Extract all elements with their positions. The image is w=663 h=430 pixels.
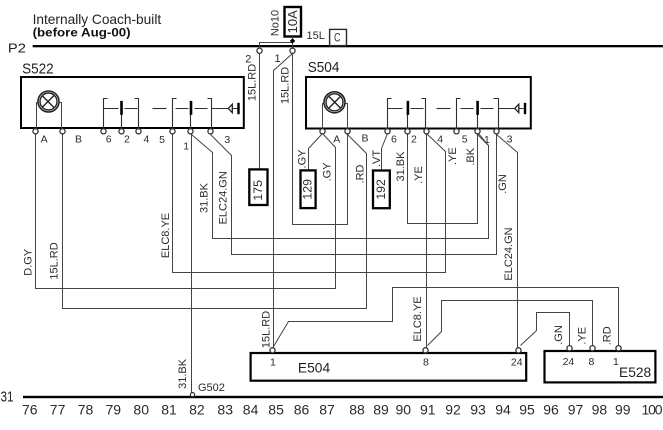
svg-text:15L.RD: 15L.RD	[260, 311, 272, 348]
svg-text:31.BK: 31.BK	[199, 182, 211, 213]
svg-text:77: 77	[50, 402, 66, 418]
svg-text:.BK: .BK	[465, 147, 477, 165]
svg-text:6: 6	[391, 133, 397, 145]
svg-text:E528: E528	[619, 365, 652, 380]
svg-text:3: 3	[224, 134, 230, 146]
svg-text:B: B	[75, 133, 82, 145]
svg-text:2: 2	[411, 133, 417, 145]
svg-text:2: 2	[124, 133, 130, 145]
svg-text:8: 8	[589, 356, 595, 368]
svg-text:1: 1	[275, 53, 281, 65]
svg-text:S522: S522	[22, 61, 53, 77]
svg-text:84: 84	[243, 402, 259, 418]
svg-text:2: 2	[245, 54, 251, 66]
svg-text:24: 24	[563, 356, 575, 368]
svg-text:91: 91	[420, 402, 436, 418]
svg-text:A: A	[41, 133, 48, 145]
svg-text:90: 90	[396, 402, 412, 418]
svg-text:31.BK: 31.BK	[395, 151, 407, 182]
svg-text:.GN: .GN	[553, 325, 565, 345]
svg-text:.GN: .GN	[497, 174, 509, 194]
svg-text:98: 98	[592, 402, 608, 418]
svg-text:6: 6	[106, 133, 112, 145]
svg-text:1: 1	[484, 134, 490, 146]
svg-text:86: 86	[294, 402, 310, 418]
svg-text:G502: G502	[198, 382, 225, 394]
svg-text:92: 92	[445, 402, 461, 418]
svg-text:(before Aug-00): (before Aug-00)	[33, 25, 131, 39]
svg-text:3: 3	[507, 133, 513, 145]
svg-text:100: 100	[642, 402, 663, 418]
svg-text:D.GY: D.GY	[23, 248, 35, 276]
svg-text:.VT: .VT	[371, 150, 383, 167]
svg-text:.GY: .GY	[297, 149, 309, 169]
svg-text:5: 5	[159, 134, 165, 146]
svg-text:15L.RD: 15L.RD	[48, 242, 60, 279]
svg-text:4: 4	[437, 133, 443, 145]
svg-text:97: 97	[568, 402, 584, 418]
svg-text:31: 31	[1, 389, 14, 405]
svg-text:175: 175	[251, 180, 265, 201]
svg-text:.YE: .YE	[413, 166, 425, 184]
svg-text:.RD: .RD	[602, 326, 614, 345]
svg-text:ELC8.YE: ELC8.YE	[160, 213, 172, 258]
svg-text:8: 8	[423, 356, 429, 368]
svg-text:.YE: .YE	[577, 327, 589, 345]
svg-text:81: 81	[161, 402, 177, 418]
svg-text:ELC24.GN: ELC24.GN	[217, 171, 229, 224]
svg-text:85: 85	[268, 402, 284, 418]
svg-text:15L.RD: 15L.RD	[280, 67, 292, 104]
svg-text:E504: E504	[298, 360, 331, 375]
svg-text:10A: 10A	[285, 10, 300, 33]
svg-text:83: 83	[217, 402, 233, 418]
svg-text:.RD: .RD	[355, 164, 367, 183]
svg-text:.GY: .GY	[321, 162, 333, 182]
svg-text:B: B	[362, 133, 369, 145]
svg-text:.YE: .YE	[447, 147, 459, 165]
svg-text:99: 99	[615, 402, 631, 418]
svg-text:ELC8.YE: ELC8.YE	[412, 296, 424, 341]
svg-text:79: 79	[106, 402, 122, 418]
svg-text:80: 80	[133, 402, 149, 418]
svg-text:93: 93	[470, 402, 486, 418]
svg-text:87: 87	[319, 402, 335, 418]
svg-text:82: 82	[189, 402, 205, 418]
svg-text:89: 89	[373, 402, 389, 418]
svg-text:4: 4	[144, 133, 150, 145]
svg-text:ELC24.GN: ELC24.GN	[503, 227, 515, 280]
svg-text:No10: No10	[269, 10, 281, 36]
svg-text:95: 95	[519, 402, 535, 418]
svg-text:15L: 15L	[307, 30, 325, 42]
svg-text:96: 96	[543, 402, 559, 418]
svg-text:88: 88	[349, 402, 365, 418]
svg-text:76: 76	[22, 402, 38, 418]
svg-text:C: C	[334, 32, 341, 44]
svg-text:31.BK: 31.BK	[177, 358, 189, 389]
svg-text:P2: P2	[8, 41, 26, 56]
svg-text:94: 94	[495, 402, 511, 418]
svg-text:192: 192	[374, 179, 388, 200]
svg-text:5: 5	[462, 134, 468, 146]
svg-text:24: 24	[511, 356, 523, 368]
svg-text:A: A	[333, 134, 340, 146]
svg-text:1: 1	[183, 140, 189, 152]
svg-text:S504: S504	[308, 60, 340, 76]
svg-text:129: 129	[301, 179, 315, 200]
svg-text:1: 1	[270, 356, 276, 368]
svg-text:15L.RD: 15L.RD	[247, 64, 259, 101]
svg-text:78: 78	[78, 402, 94, 418]
